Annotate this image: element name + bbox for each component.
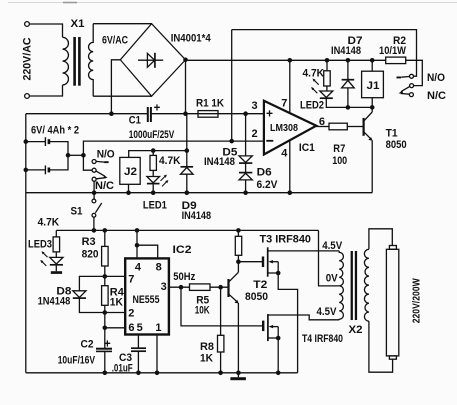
label C1 plus	[154, 103, 161, 115]
svg-text:R8: R8	[200, 341, 214, 353]
junction DC- rail	[109, 111, 114, 116]
wire X2 secondary top to lamp	[369, 229, 392, 250]
svg-text:8050: 8050	[245, 291, 268, 303]
svg-text:10/1W: 10/1W	[379, 45, 407, 57]
transistor T2	[229, 272, 239, 303]
svg-text:4.5V: 4.5V	[317, 306, 338, 318]
label R1 1K	[196, 97, 224, 109]
svg-text:50Hz: 50Hz	[173, 271, 195, 283]
relay J1 contact N/C	[401, 93, 414, 97]
junction J2 ground	[126, 190, 131, 195]
lamp tube cap bottom	[389, 356, 396, 359]
wire pin 6 to R7	[316, 126, 329, 128]
wire pin1 to ground	[156, 335, 158, 373]
relay J2 contact N/C	[92, 177, 106, 181]
transistor T1	[364, 112, 373, 141]
junction T1 collector node	[370, 105, 375, 110]
label R3	[82, 236, 96, 248]
label N/C left	[95, 180, 114, 192]
label C3	[119, 352, 132, 364]
wire battery plus to pin2 rail	[83, 141, 264, 155]
label J1	[367, 80, 380, 92]
svg-text:4.5V: 4.5V	[322, 240, 343, 252]
relay J2 contact N/O	[92, 160, 109, 164]
junction DC+ rail at bridge column	[183, 111, 188, 116]
op-amp U1 LM308 triangle	[264, 101, 316, 155]
junction pin4 rail	[135, 228, 140, 233]
label op-amp plus	[266, 107, 273, 121]
label D5	[222, 146, 237, 158]
wire DC+ upper rail	[186, 59, 386, 61]
svg-text:8: 8	[156, 262, 162, 274]
label T4 IRF840	[302, 333, 343, 345]
svg-text:+: +	[154, 103, 161, 115]
resistor 4.7K for LED3	[53, 230, 60, 257]
label C2 plus	[104, 338, 111, 350]
LED2 arrows	[311, 79, 319, 94]
wire pin4 to rail	[136, 230, 138, 258]
MOSFET T4	[263, 314, 339, 373]
terminal AC input bottom	[25, 94, 30, 99]
svg-text:C2: C2	[81, 339, 94, 351]
label 10/1W	[379, 45, 407, 57]
junction pin1 ground	[155, 371, 160, 376]
label pin 8	[156, 262, 162, 274]
label 100	[332, 155, 347, 167]
decorative top scan line	[8, 2, 457, 4]
wire ground rail upper	[26, 192, 372, 194]
svg-text:1N4148: 1N4148	[38, 295, 71, 307]
svg-text:3: 3	[161, 281, 167, 293]
label X1	[71, 18, 85, 30]
label D7	[348, 35, 363, 47]
label pin 7	[281, 98, 287, 110]
wire bridge DC+ column	[185, 60, 187, 114]
bridge rectifier diamond	[120, 24, 185, 97]
ground bar LED3	[51, 271, 62, 274]
wire R7 to T1 base	[347, 126, 363, 128]
junction T2 collector T3 gate	[236, 259, 241, 264]
label pin 1 ic2	[155, 322, 161, 334]
junction T4 source body	[276, 336, 281, 341]
junction pin3 node	[179, 285, 184, 290]
relay J1 contact N/O	[397, 74, 414, 78]
svg-text:J1: J1	[367, 80, 380, 92]
svg-text:1: 1	[155, 322, 161, 334]
junction pin7 rail	[288, 58, 293, 63]
svg-text:4: 4	[281, 148, 288, 160]
label 4.5V top	[322, 240, 343, 252]
junction pin2 rail riser	[229, 139, 234, 144]
label pin 3 ic2	[161, 281, 167, 293]
svg-text:3: 3	[252, 100, 258, 112]
svg-text:100: 100	[332, 155, 347, 167]
svg-text:7: 7	[128, 273, 134, 285]
resistor R8	[218, 287, 224, 373]
label 4.5V bottom	[317, 306, 338, 318]
junction battery mid tap	[66, 153, 71, 158]
svg-text:4.7K: 4.7K	[38, 217, 60, 229]
junction pin8 pin4	[135, 243, 140, 248]
svg-text:+: +	[266, 107, 273, 121]
label 6V/4Ah*2	[31, 124, 79, 136]
wire pin8 to pin4	[137, 245, 158, 258]
svg-text:6V/AC: 6V/AC	[102, 35, 128, 47]
LED1	[147, 177, 160, 193]
label op-amp minus	[266, 140, 273, 142]
wire DC+ column to J2 rail	[186, 114, 188, 167]
junction pin6 node	[103, 326, 108, 331]
relay coil J2 box	[120, 157, 140, 184]
junction pin2 node	[103, 310, 108, 315]
svg-text:LED1: LED1	[143, 199, 167, 211]
junction R3 R4 pin7	[103, 274, 108, 279]
label pin 2	[252, 128, 258, 140]
junction battery2 left	[24, 168, 29, 173]
label 8050 T2	[245, 291, 268, 303]
svg-text:10K: 10K	[195, 305, 210, 317]
svg-text:5: 5	[137, 322, 143, 334]
resistor R7	[329, 123, 347, 130]
svg-text:6V/ 4Ah * 2: 6V/ 4Ah * 2	[31, 124, 79, 136]
label IN4148 D5	[204, 156, 235, 168]
svg-text:4.7K: 4.7K	[159, 155, 181, 167]
wire T2 collector to T3 gate	[238, 261, 262, 263]
label N/O left	[97, 149, 115, 161]
wire T2 emitter to ground	[237, 303, 239, 373]
svg-text:IN4001*4: IN4001*4	[171, 33, 212, 45]
resistor R2	[386, 57, 406, 64]
label N/O right	[427, 72, 445, 84]
label S1	[71, 206, 83, 218]
label 1K R8	[200, 352, 213, 364]
svg-text:820: 820	[82, 249, 99, 261]
label 10uF/16V	[58, 354, 96, 366]
svg-text:T3 IRF840: T3 IRF840	[260, 234, 312, 246]
label pin 4	[135, 262, 142, 274]
svg-text:LED2: LED2	[300, 100, 324, 112]
label 6V/AC	[102, 35, 128, 47]
label R8	[200, 341, 214, 353]
wire J1 top	[371, 60, 373, 71]
label 4.7K LED1	[159, 155, 181, 167]
label IC2	[173, 244, 192, 256]
label pin 7 ic2	[128, 273, 134, 285]
label 220V/AC	[22, 37, 34, 80]
label LED2	[300, 100, 324, 112]
label pin 4	[281, 148, 288, 160]
capacitor C2	[96, 328, 112, 373]
label 1K R4	[110, 297, 123, 309]
lamp tube body	[386, 249, 398, 356]
label NE555	[133, 294, 160, 306]
label 8050 T1	[386, 139, 407, 151]
svg-text:6: 6	[128, 322, 134, 334]
svg-text:N/O: N/O	[97, 149, 115, 161]
label 10K	[195, 305, 210, 317]
junction LED1 ground	[151, 190, 156, 195]
wire supply to X2 centre tap	[319, 230, 340, 286]
label 820	[82, 249, 99, 261]
IC2 NE555 box	[125, 258, 169, 334]
junction D7 rail top	[346, 58, 351, 63]
battery 6V/4Ah*2 cell 1	[28, 137, 68, 155]
wire battery tap to J2 common	[83, 155, 92, 170]
svg-text:IN4148: IN4148	[331, 45, 361, 57]
junction J1 rail top	[370, 58, 375, 63]
junction pin4 ground	[288, 190, 293, 195]
transformer X1 primary winding	[63, 37, 69, 85]
wire AC bottom to X1 primary	[29, 85, 62, 96]
svg-text:N/C: N/C	[95, 180, 114, 192]
label J2	[124, 166, 137, 178]
junction T2 emitter ground	[236, 371, 241, 376]
battery 6V/4Ah*2 cell 2	[28, 155, 68, 174]
wire AC top to X1 primary	[29, 24, 62, 37]
label D9	[182, 200, 197, 212]
svg-text:R3: R3	[82, 236, 96, 248]
wire pin5 to C3	[137, 335, 139, 348]
label R4	[110, 287, 125, 299]
wire X1 secondary bottom to bridge	[93, 95, 151, 97]
svg-text:2: 2	[252, 128, 258, 140]
svg-text:0V: 0V	[326, 273, 339, 285]
resistor 4.7K for LED1	[150, 151, 156, 177]
LED3 arrows	[40, 251, 47, 266]
svg-text:T1: T1	[386, 127, 398, 139]
wire top rail to relay contact J1	[232, 30, 417, 77]
wire DC+ rail from C1 to op-amp pin3	[151, 113, 264, 115]
transformer X1 core	[73, 37, 80, 86]
junction LED1 column top	[151, 148, 156, 153]
relay coil J1 box	[362, 71, 384, 98]
resistor R4	[102, 276, 109, 312]
svg-text:X1: X1	[71, 18, 85, 30]
LED2	[320, 91, 333, 98]
wire pin 7	[289, 60, 291, 113]
wire J2 bottom	[128, 184, 130, 192]
junction bridge DC+	[183, 58, 188, 63]
svg-text:T4 IRF840: T4 IRF840	[302, 333, 343, 345]
wire bridge DC- to rail	[111, 60, 120, 114]
svg-text:LM308: LM308	[270, 122, 298, 134]
wire pin7	[105, 275, 125, 277]
junction S1 bottom rail	[92, 228, 97, 233]
label pin 5 ic2	[137, 322, 143, 334]
svg-text:4: 4	[135, 262, 142, 274]
wire left ground rail	[25, 114, 27, 373]
svg-text:IC2: IC2	[173, 244, 192, 256]
LED3	[50, 257, 63, 271]
wire pin6	[105, 313, 125, 328]
MOSFET T3	[263, 247, 339, 372]
label T2	[253, 279, 267, 291]
resistor R3	[102, 230, 109, 276]
label 1000uF/25V	[129, 129, 175, 141]
svg-text:IC1: IC1	[299, 142, 315, 154]
junction battery1 left	[24, 139, 29, 144]
junction J2 rail right	[185, 148, 190, 153]
label R5	[196, 294, 209, 306]
label T3 IRF840	[260, 234, 312, 246]
label 4.7K LED3	[38, 217, 60, 229]
lamp tube cap top	[389, 246, 396, 250]
junction C2 ground	[103, 371, 108, 376]
resistor R6	[235, 230, 241, 261]
label R2	[393, 35, 406, 47]
label 1N4148	[38, 295, 71, 307]
svg-text:J2: J2	[124, 166, 137, 178]
junction D6 ground	[243, 190, 248, 195]
switch S1	[92, 199, 102, 230]
junction D9 ground	[185, 190, 190, 195]
label LED1	[143, 199, 167, 211]
label IC1	[299, 142, 315, 154]
svg-text:D6: D6	[257, 166, 272, 178]
label D8	[56, 285, 71, 297]
label LM308	[270, 122, 298, 134]
svg-text:2: 2	[128, 308, 134, 320]
wire N/C to ground rail and S1	[93, 181, 95, 199]
wire LED2 D7 J1 node	[326, 99, 372, 107]
label C1	[129, 115, 141, 127]
svg-text:8050: 8050	[386, 139, 407, 151]
label pin 2 ic2	[128, 308, 134, 320]
wire J2 top	[129, 151, 187, 158]
junction N/C ground rail	[92, 190, 97, 195]
wire T1 emitter to ground	[371, 140, 373, 192]
resistor R1	[198, 111, 218, 118]
label N/C right	[427, 90, 446, 102]
junction C3 ground	[136, 371, 141, 376]
relay J1 contact common	[399, 84, 414, 94]
label pin 3	[252, 100, 258, 112]
label LED3	[28, 239, 52, 251]
diode D8	[73, 276, 105, 312]
relay J2 contact common	[92, 168, 108, 178]
svg-text:+: +	[104, 338, 111, 350]
terminal AC input top	[25, 22, 30, 27]
LED1 arrows	[161, 175, 169, 187]
svg-text:7: 7	[281, 98, 287, 110]
label D6	[257, 166, 272, 178]
transformer X2 secondary winding	[364, 249, 369, 321]
zener D6	[239, 163, 252, 193]
svg-text:220V/200W: 220V/200W	[412, 278, 423, 323]
label T1	[386, 127, 398, 139]
capacitor C1	[148, 107, 151, 122]
svg-text:N/O: N/O	[427, 72, 445, 84]
resistor R5	[190, 284, 211, 291]
wire bottom ground rail	[26, 372, 298, 374]
svg-text:IN4148: IN4148	[182, 210, 212, 222]
junction T4 source ground	[276, 371, 281, 376]
label .01uF	[112, 362, 133, 374]
svg-text:X2: X2	[349, 324, 363, 336]
junction D5 column top	[243, 111, 248, 116]
wire battery-plus riser to top rail	[231, 30, 233, 142]
bridge rectifier inner diode	[138, 53, 163, 68]
svg-text:T2: T2	[253, 279, 267, 291]
label 4.7K LED2	[303, 67, 325, 79]
diode D7	[342, 60, 355, 107]
junction R8 top node	[218, 285, 223, 290]
svg-text:R1 1K: R1 1K	[196, 97, 224, 109]
label IN4148 D9	[182, 210, 212, 222]
transformer X2 primary winding	[339, 251, 343, 320]
svg-text:S1: S1	[71, 206, 83, 218]
label pin 6	[319, 116, 325, 128]
wire X2 secondary bottom to lamp	[369, 321, 393, 372]
svg-text:10uF/16V: 10uF/16V	[58, 354, 96, 366]
svg-text:IN4148: IN4148	[204, 156, 235, 168]
label 220V/200W	[412, 278, 423, 323]
diode D5	[239, 114, 252, 163]
wire DC- rail	[26, 113, 148, 115]
junction D7 bottom node	[346, 105, 351, 110]
diode D9	[181, 167, 194, 193]
label IN4001*4	[171, 33, 212, 45]
resistor 4.7K for LED2	[324, 60, 331, 91]
svg-text:1000uF/25V: 1000uF/25V	[129, 129, 175, 141]
svg-text:.01uF: .01uF	[112, 362, 133, 374]
label X2	[349, 324, 363, 336]
wire pin3 to T4 gate	[181, 287, 262, 326]
junction T3 source	[276, 271, 281, 276]
capacitor C3	[131, 348, 146, 373]
label 0V	[326, 273, 339, 285]
junction R6 rail	[236, 228, 241, 233]
ground symbol	[230, 373, 246, 380]
junction battery tap node	[81, 153, 86, 158]
svg-text:4.7K: 4.7K	[303, 67, 325, 79]
svg-text:R7: R7	[333, 143, 345, 155]
wire switched supply rail	[56, 229, 318, 231]
label C2	[81, 339, 94, 351]
wire pin 4	[289, 140, 291, 192]
svg-text:1K: 1K	[110, 297, 123, 309]
svg-text:LED3: LED3	[28, 239, 52, 251]
svg-text:N/C: N/C	[427, 90, 446, 102]
wire T1 collector	[371, 107, 373, 112]
wire X1 secondary top to bridge	[93, 23, 151, 25]
label 6.2V	[257, 179, 279, 191]
label IN4148 D7	[331, 45, 361, 57]
transformer X2 core	[351, 251, 357, 320]
wire battery tap to contacts	[68, 154, 83, 156]
junction R3 top	[103, 228, 108, 233]
label 50Hz	[173, 271, 195, 283]
junction R8 ground	[218, 371, 223, 376]
svg-text:220V/AC: 220V/AC	[22, 37, 34, 80]
svg-text:NE555: NE555	[133, 294, 160, 306]
wire R2 to J1 common contact	[406, 60, 423, 85]
label pin 6 ic2	[128, 322, 134, 334]
svg-text:6.2V: 6.2V	[257, 179, 279, 191]
junction LED2 rail top	[325, 58, 330, 63]
transformer X1 secondary winding	[89, 24, 94, 97]
svg-text:1K: 1K	[200, 352, 213, 364]
wire J1 bottom	[371, 98, 373, 108]
wire T2 collector	[237, 262, 239, 273]
svg-text:C1: C1	[129, 115, 141, 127]
wire R5 to T2 base	[210, 286, 228, 288]
label R7	[333, 143, 345, 155]
wire pin2	[105, 312, 125, 314]
wire pin3 out	[169, 286, 190, 288]
